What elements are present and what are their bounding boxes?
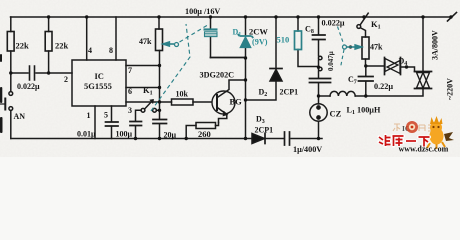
svg-text:0.22μ: 0.22μ bbox=[374, 82, 393, 91]
svg-text:3: 3 bbox=[128, 106, 132, 115]
svg-text:8: 8 bbox=[109, 46, 113, 55]
svg-text:47k: 47k bbox=[139, 37, 152, 46]
svg-text:AN: AN bbox=[14, 112, 26, 121]
svg-text:0.022μ: 0.022μ bbox=[322, 19, 345, 28]
svg-text:20μ: 20μ bbox=[164, 131, 177, 140]
svg-text:www.dzsc.com: www.dzsc.com bbox=[399, 145, 449, 154]
svg-text:L1 100μH: L1 100μH bbox=[347, 106, 381, 117]
svg-text:2: 2 bbox=[64, 75, 68, 84]
svg-text:6: 6 bbox=[128, 87, 132, 96]
svg-text:2CW: 2CW bbox=[249, 27, 268, 37]
svg-text:100μ /16V: 100μ /16V bbox=[185, 7, 220, 16]
svg-text:1μ/400V: 1μ/400V bbox=[293, 145, 322, 154]
svg-text:IC: IC bbox=[95, 71, 104, 81]
svg-text:2CP1: 2CP1 bbox=[280, 88, 299, 97]
svg-text:100μ: 100μ bbox=[116, 130, 133, 139]
svg-text:510: 510 bbox=[277, 35, 290, 45]
svg-text:(9V): (9V) bbox=[252, 38, 268, 47]
svg-text:7: 7 bbox=[128, 66, 132, 75]
svg-text:BG: BG bbox=[230, 97, 243, 107]
svg-text:5: 5 bbox=[104, 111, 108, 120]
svg-text:260: 260 bbox=[198, 129, 211, 139]
svg-text:2CP1: 2CP1 bbox=[255, 126, 274, 135]
svg-text:5G1555: 5G1555 bbox=[84, 81, 112, 91]
svg-text:3A/800V: 3A/800V bbox=[431, 30, 440, 60]
svg-text:22k: 22k bbox=[55, 41, 69, 51]
svg-text:22k: 22k bbox=[16, 41, 30, 51]
svg-text:1: 1 bbox=[87, 111, 91, 120]
svg-text:0.047μ: 0.047μ bbox=[327, 51, 335, 71]
svg-text:3DG202C: 3DG202C bbox=[200, 71, 235, 80]
svg-text:0.022μ: 0.022μ bbox=[17, 82, 40, 91]
svg-text:10k: 10k bbox=[176, 90, 189, 99]
svg-text:47k: 47k bbox=[370, 43, 383, 52]
svg-text:0.01μ: 0.01μ bbox=[77, 130, 96, 139]
svg-text:4: 4 bbox=[88, 46, 92, 55]
svg-text:CZ: CZ bbox=[330, 109, 342, 119]
svg-text:~220V: ~220V bbox=[446, 78, 455, 100]
